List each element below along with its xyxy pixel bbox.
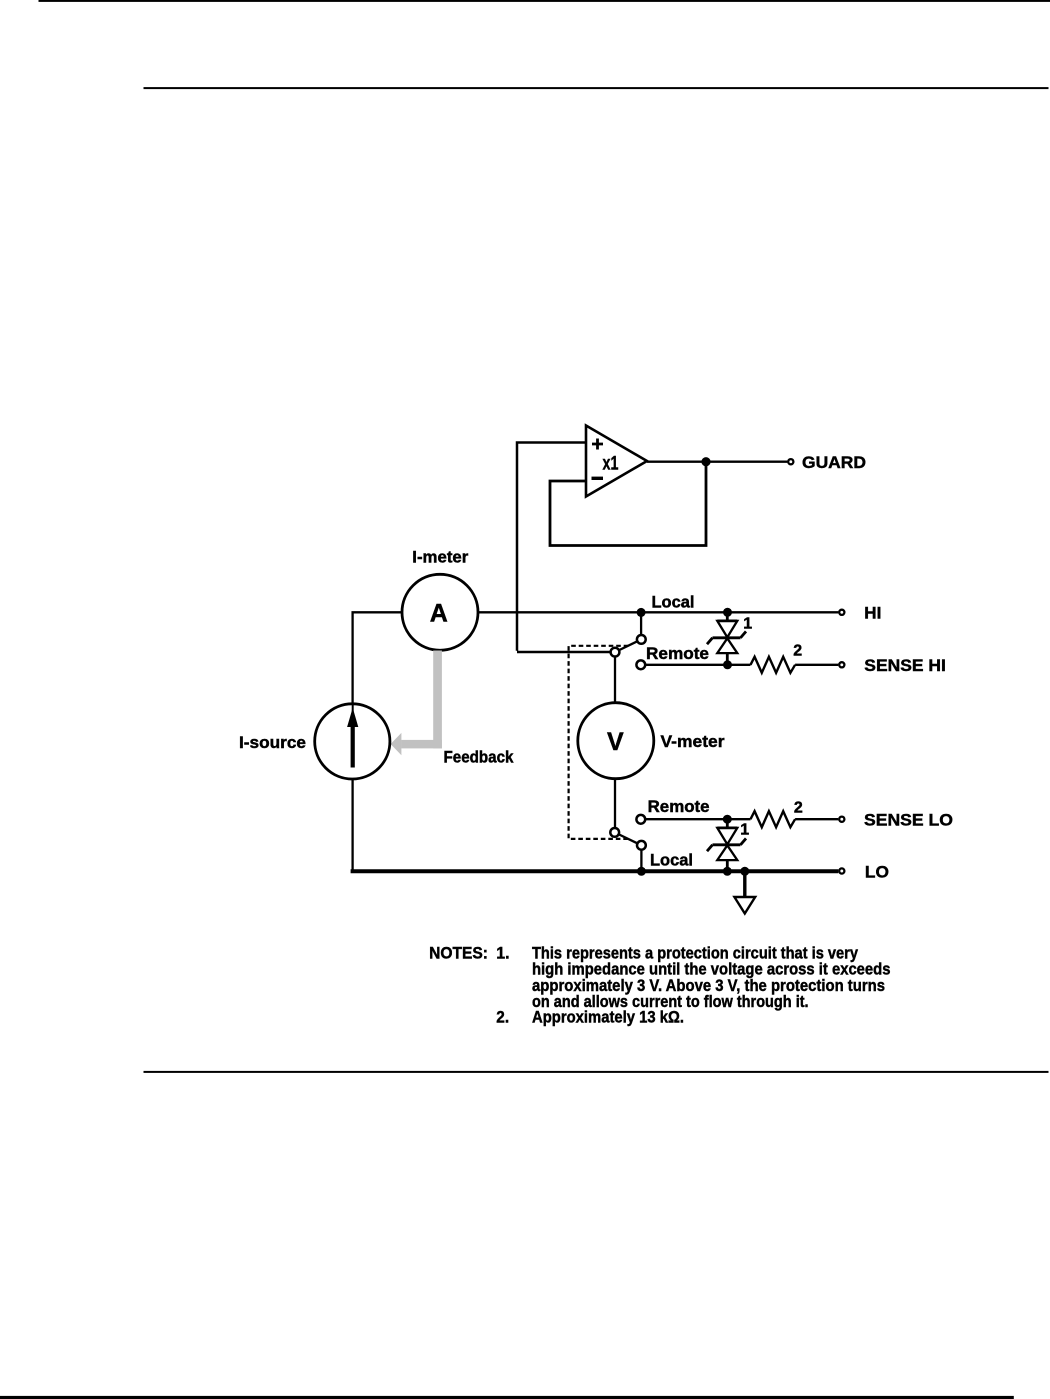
switch S2 remote contact [636,815,645,824]
wire I-meter right HI line [478,611,838,613]
wire sense hi line [646,664,751,666]
svg-text:2: 2 [794,799,803,816]
svg-text:Remote: Remote [648,797,710,816]
op-amp U1 [586,426,647,497]
node D2 top junction [723,815,732,824]
svg-text:SENSE HI: SENSE HI [864,656,946,675]
svg-text:LO: LO [865,863,889,882]
node S2 local junction [637,867,646,876]
svg-text:Local: Local [650,851,693,870]
wire sense lo to terminal [795,818,838,820]
voltmeter V1 [578,703,654,779]
svg-text:Remote: Remote [646,644,709,663]
terminal SENSE LO [839,817,844,822]
switch S1 local contact [637,635,646,644]
node local-hi junction [637,608,646,617]
svg-text:1: 1 [743,616,752,633]
svg-text:2.: 2. [496,1008,509,1027]
svg-text:Feedback: Feedback [444,748,514,767]
svg-text:V: V [607,728,624,756]
protection device D2 (lower, note 1) [707,819,746,871]
protection device D1 (upper, note 1) [707,610,746,665]
svg-text:1.: 1. [496,943,509,962]
feedback arrow (gray) [391,651,442,756]
wire sense lo line [646,818,751,820]
wire op-amp + input from HI node [517,443,612,653]
wire LO line (thick) [351,869,839,873]
svg-text:NOTES:: NOTES: [429,943,488,962]
svg-text:A: A [430,600,448,628]
switch S2 pivot [610,828,619,837]
svg-text:Local: Local [652,593,695,612]
resistor R1 (sense hi, note 2) [751,657,796,673]
node D2 bottom junction [723,867,732,876]
switch S2 local contact [637,841,646,850]
terminal LO [839,868,844,873]
switch S1 pivot [611,648,620,657]
node guard junction [701,457,710,466]
svg-text:Approximately 13 kΩ.: Approximately 13 kΩ. [532,1008,684,1027]
wire I-meter left to LO corner [353,612,402,871]
svg-text:HI: HI [864,604,881,623]
switch S1 arm [615,639,641,652]
terminal SENSE HI [839,662,844,667]
svg-text:x1: x1 [603,453,619,474]
wire op-amp output to GUARD [647,461,787,463]
ground [743,871,746,897]
switch S1 local contact stub [640,612,642,635]
svg-text:I-source: I-source [239,733,306,752]
svg-text:I-meter: I-meter [412,548,468,567]
node D1 bottom junction [723,660,732,669]
svg-text:SENSE LO: SENSE LO [864,810,953,829]
switch S2 local stub [640,850,642,871]
wire V-meter bottom [614,779,616,828]
svg-text:1: 1 [740,822,749,839]
node D1 top junction [723,608,732,617]
current source I1 [315,704,390,779]
node ground junction [740,867,749,876]
svg-text:GUARD: GUARD [802,453,866,472]
switch S2 arm [615,832,642,845]
svg-text:2: 2 [793,643,802,660]
terminal GUARD [788,459,793,464]
ammeter A [402,574,478,650]
dashed gang linkage [569,646,629,839]
wire op-amp - input feedback loop [550,462,706,546]
resistor R2 (sense lo, note 2) [751,811,796,827]
terminal HI [839,610,844,615]
switch S1 remote contact [636,660,645,669]
wire V-meter top [614,657,616,703]
svg-text:V-meter: V-meter [661,732,725,751]
wire sense hi to terminal [795,664,838,666]
